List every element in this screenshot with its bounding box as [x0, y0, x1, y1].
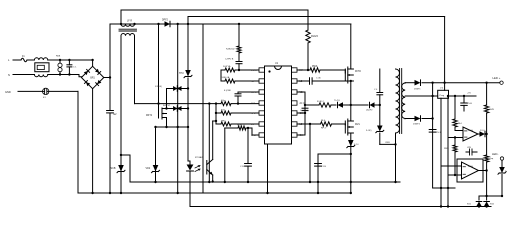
svg-text:LED-: LED-: [492, 152, 498, 156]
svg-text:40)s: 40)s: [221, 100, 225, 102]
svg-text:RWS: RWS: [312, 66, 318, 68]
svg-text:E (CBK: E (CBK: [224, 90, 232, 92]
svg-text:MLS: MLS: [355, 124, 360, 126]
svg-text:VD2: VD2: [146, 167, 151, 170]
svg-text:N: N: [8, 73, 10, 77]
svg-text:E2: E2: [114, 113, 118, 116]
svg-text:KS1: KS1: [467, 204, 472, 206]
svg-text:CO M: CO M: [251, 92, 257, 94]
svg-text:C 4: C 4: [374, 89, 378, 91]
svg-text:S19-B): S19-B): [155, 86, 162, 88]
svg-text:LF R: LF R: [127, 21, 132, 23]
svg-text:LED +: LED +: [493, 76, 501, 80]
svg-text:U2 A: U2 A: [468, 165, 473, 168]
svg-text:C B: C B: [240, 166, 244, 168]
svg-text:C1 B: C1 B: [321, 166, 326, 168]
svg-text:Ts: Ts: [505, 171, 507, 173]
svg-text:CHA: CHA: [251, 134, 256, 137]
svg-text:R0B: R0B: [56, 56, 61, 58]
svg-text:RLS: RLS: [321, 120, 326, 122]
svg-text:U1: U1: [275, 62, 279, 65]
svg-text:DSM*1: DSM*1: [414, 89, 421, 91]
svg-text:(3-DF2: (3-DF2: [366, 110, 373, 112]
svg-text:DSM*2: DSM*2: [413, 124, 421, 126]
svg-text:RT BA2: RT BA2: [195, 156, 203, 159]
svg-text:TPU: TPU: [179, 72, 184, 75]
svg-text:L: L: [8, 58, 10, 62]
svg-text:GND: GND: [5, 90, 11, 94]
svg-text:TL4)1: TL4)1: [334, 100, 340, 102]
svg-text:C 1: C 1: [73, 67, 77, 69]
svg-text:CRR: CRR: [385, 142, 390, 144]
svg-text:R-W VA: R-W VA: [223, 65, 231, 68]
svg-text:R-BU 0A: R-BU 0A: [221, 76, 230, 79]
svg-text:F1: F1: [22, 56, 25, 58]
svg-text:DPF2: DPF2: [162, 20, 169, 22]
svg-text:SCB: SCB: [111, 167, 116, 170]
svg-text:D1 4: D1 4: [480, 130, 485, 132]
svg-text:STA: STA: [251, 102, 256, 105]
svg-text:D 14: D 14: [354, 144, 359, 146]
svg-text:3-OF): 3-OF): [366, 130, 372, 132]
svg-text:E1: E1: [43, 97, 46, 99]
svg-text:RFC: RFC: [251, 113, 256, 115]
svg-text:RF 4: RF 4: [321, 128, 327, 130]
svg-text:KS2: KS2: [490, 204, 495, 206]
svg-text:B-BO4: B-BO4: [163, 105, 170, 107]
svg-text:U 4: U 4: [440, 88, 444, 90]
svg-text:R 4K C: R 4K C: [317, 101, 324, 103]
svg-text:C 06: C 06: [316, 78, 321, 80]
svg-text:C-HP2 B: C-HP2 B: [225, 59, 234, 61]
svg-text:R-BU502: R-BU502: [226, 49, 235, 51]
svg-text:C5-B: C5-B: [467, 103, 472, 105]
svg-text:BR1: BR1: [90, 78, 95, 80]
svg-text:Preg: Preg: [440, 94, 445, 97]
svg-text:RWB: RWB: [444, 148, 449, 150]
svg-text:Rsq: Rsq: [490, 158, 495, 160]
svg-text:+5V: +5V: [467, 93, 471, 95]
svg-text:RHV2: RHV2: [311, 34, 318, 38]
svg-text:MFC: MFC: [221, 121, 226, 123]
svg-text:ROE: ROE: [237, 125, 242, 127]
svg-text:C-VCC 2: C-VCC 2: [300, 110, 309, 112]
svg-text:MFT2: MFT2: [146, 115, 153, 117]
svg-text:LPB: LPB: [467, 147, 471, 149]
svg-text:U1 A: U1 A: [468, 129, 473, 132]
svg-text:LRL B: LRL B: [251, 70, 257, 72]
svg-text:DC: DC: [251, 124, 255, 126]
svg-text:Rb1: Rb1: [458, 123, 463, 125]
svg-text:RVB: RVB: [490, 109, 495, 111]
svg-text:M HD: M HD: [355, 71, 361, 73]
